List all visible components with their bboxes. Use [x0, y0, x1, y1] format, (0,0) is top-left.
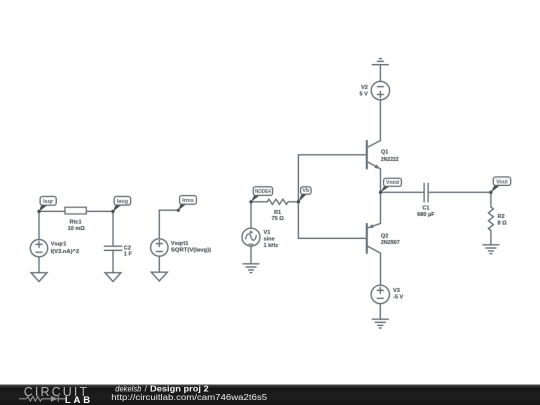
svg-text:LAB: LAB	[65, 395, 90, 405]
svg-text:http://circuitlab.com/cam746wa: http://circuitlab.com/cam746wa2t6s5	[111, 393, 267, 402]
